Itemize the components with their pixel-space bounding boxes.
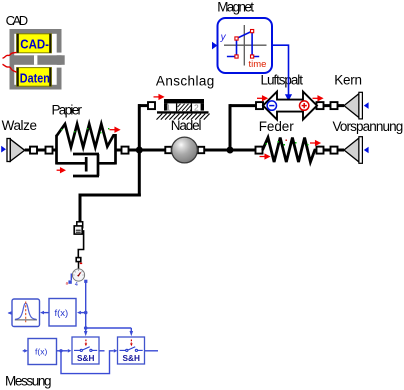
svg-text:Luftspalt: Luftspalt bbox=[261, 73, 304, 88]
svg-text:4: 4 bbox=[75, 282, 78, 288]
svg-text:S&H: S&H bbox=[77, 354, 94, 363]
svg-text:2: 2 bbox=[194, 103, 199, 113]
svg-text:Nadel: Nadel bbox=[171, 118, 202, 133]
svg-text:Feder: Feder bbox=[259, 119, 295, 134]
svg-text:Vorspannung: Vorspannung bbox=[333, 119, 404, 134]
svg-text:S&H: S&H bbox=[123, 354, 140, 363]
svg-text:CAD: CAD bbox=[6, 13, 29, 28]
svg-text:Messung: Messung bbox=[5, 373, 52, 388]
svg-text:Papier: Papier bbox=[52, 102, 83, 117]
svg-text:f(x): f(x) bbox=[55, 308, 69, 319]
svg-text:Walze: Walze bbox=[2, 118, 37, 133]
svg-text:Magnet: Magnet bbox=[217, 0, 254, 14]
svg-text:Kern: Kern bbox=[334, 73, 362, 88]
svg-text:time: time bbox=[249, 59, 267, 70]
svg-text:Daten: Daten bbox=[20, 70, 50, 85]
svg-text:1: 1 bbox=[166, 103, 171, 113]
svg-text:f(x): f(x) bbox=[35, 347, 47, 357]
svg-text:y: y bbox=[220, 32, 227, 43]
svg-text:Anschlag: Anschlag bbox=[156, 74, 214, 89]
svg-text:CAD-: CAD- bbox=[20, 37, 49, 52]
